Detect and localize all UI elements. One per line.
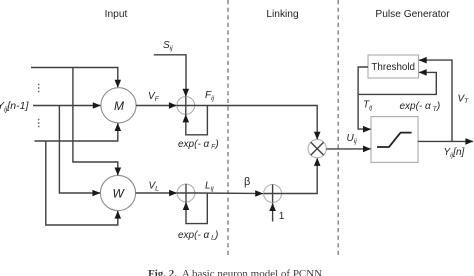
block M feeding matrix <box>101 88 136 123</box>
label exp(-aL) <box>178 230 218 242</box>
label beta <box>244 176 250 188</box>
arrowhead into M bottom <box>115 123 122 131</box>
label Uij <box>347 133 358 145</box>
wire W output VL <box>136 192 178 194</box>
arrowhead into W bottom <box>115 211 122 219</box>
wire F decay feedback loop <box>186 106 208 135</box>
svg-text:β: β <box>244 176 250 188</box>
label VT <box>458 93 470 105</box>
svg-text:M: M <box>114 99 124 113</box>
wire threshold decay loop exp(-aT) <box>358 72 436 94</box>
arrowhead into M left <box>93 102 101 109</box>
arrowhead into adder L left <box>169 190 177 197</box>
wire beta adder output to multiplier <box>282 158 318 193</box>
arrowhead into W top <box>115 168 122 176</box>
svg-text:Linking: Linking <box>266 9 299 20</box>
wire VT feedback from output <box>419 60 452 141</box>
wire M output VF <box>136 105 177 107</box>
dashed separator line 2 <box>337 0 339 259</box>
label VF <box>148 91 160 103</box>
svg-text:1: 1 <box>279 211 285 222</box>
arrowhead Sij into adder F top <box>183 89 190 97</box>
label 1 <box>279 211 285 222</box>
arrowhead into adder beta left <box>255 190 263 197</box>
wire branch to W bottom <box>46 141 118 225</box>
wire threshold output T down to step block <box>358 67 370 129</box>
block W linking matrix <box>100 175 135 210</box>
dashed separator line 1 <box>227 0 229 256</box>
adder beta (1 + beta L) <box>264 185 282 203</box>
wire output Yij[n] <box>418 140 473 142</box>
svg-text:Yij[n]: Yij[n] <box>444 147 465 159</box>
wire Sij input <box>154 55 186 96</box>
arrowhead into adder F left <box>169 102 177 109</box>
wire branch to W left <box>59 106 100 194</box>
wire feed line top into M <box>31 68 118 88</box>
svg-text:W: W <box>113 187 126 201</box>
label Tij <box>363 100 373 112</box>
svg-text:Threshold: Threshold <box>371 62 415 73</box>
label exp(-aF) <box>178 139 219 151</box>
wire U output to step block <box>326 148 370 150</box>
ellipsis dots lower <box>38 119 40 128</box>
block Threshold <box>368 55 419 78</box>
arrowhead into multiplier bottom <box>314 158 321 166</box>
adder F (summing node) <box>177 97 195 115</box>
svg-text:Fig. 2. A basic neuron model: Fig. 2. A basic neuron model of PCNN <box>148 268 322 276</box>
arrowhead 1 into adder beta bottom <box>269 203 276 211</box>
arrowhead into W left <box>92 190 100 197</box>
arrowhead feedback into adder L bottom <box>183 202 190 210</box>
label Yij[n-1] <box>0 100 29 114</box>
arrowhead feedback into adder F bottom <box>183 114 190 122</box>
arrowhead U into step block <box>363 146 371 153</box>
label exp(-aT) <box>400 101 441 113</box>
label Lij <box>205 181 214 193</box>
multiplier U (modulation) <box>308 140 326 158</box>
wire constant 1 input <box>272 203 274 221</box>
svg-text:Input: Input <box>105 9 128 20</box>
arrowhead decay into Threshold <box>419 69 427 76</box>
section title Pulse Generator <box>375 9 450 20</box>
label Fij <box>205 90 215 102</box>
label Sij <box>163 40 173 52</box>
label VL <box>149 181 160 193</box>
wire F output to multiplier <box>195 106 318 140</box>
arrowhead output right edge <box>465 138 473 145</box>
wire L output to beta adder <box>195 192 263 195</box>
block step function (pulse generator) <box>371 117 418 163</box>
arrowhead T into step block <box>363 126 371 133</box>
node Yij[n-1] input wire <box>33 105 100 107</box>
caption Fig. 2 <box>148 268 322 276</box>
wire L decay feedback loop <box>186 193 207 224</box>
arrowhead into M top <box>115 80 122 88</box>
wire branch to W top <box>73 68 118 176</box>
arrowhead F into multiplier top <box>314 132 321 140</box>
wire feed line bottom into M <box>35 123 118 141</box>
arrowhead VT into Threshold <box>419 57 427 64</box>
adder L (summing node) <box>177 184 195 202</box>
section title Input <box>105 9 128 20</box>
ellipsis dots upper <box>38 84 40 93</box>
label Yij[n] <box>444 147 465 159</box>
svg-text:Pulse Generator: Pulse Generator <box>375 9 450 20</box>
section title Linking <box>266 9 299 20</box>
